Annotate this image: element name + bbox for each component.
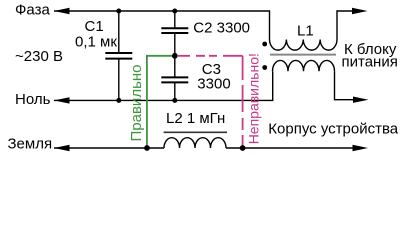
svg-text:C1: C1: [85, 18, 104, 35]
svg-text:~230 В: ~230 В: [15, 48, 63, 65]
svg-text:L1: L1: [297, 23, 314, 40]
svg-text:Неправильно!: Неправильно!: [245, 53, 261, 144]
svg-text:питания: питания: [342, 54, 398, 71]
svg-text:Правильно: Правильно: [128, 64, 145, 141]
svg-text:Земля: Земля: [8, 136, 53, 153]
svg-text:L2 1 мГн: L2 1 мГн: [166, 110, 225, 127]
svg-text:Ноль: Ноль: [15, 91, 51, 108]
svg-text:Корпус устройства: Корпус устройства: [268, 121, 398, 138]
svg-text:3300: 3300: [197, 76, 230, 93]
svg-text:Фаза: Фаза: [15, 2, 50, 19]
svg-text:0,1 мк: 0,1 мк: [75, 34, 117, 51]
svg-text:C2 3300: C2 3300: [193, 20, 250, 37]
